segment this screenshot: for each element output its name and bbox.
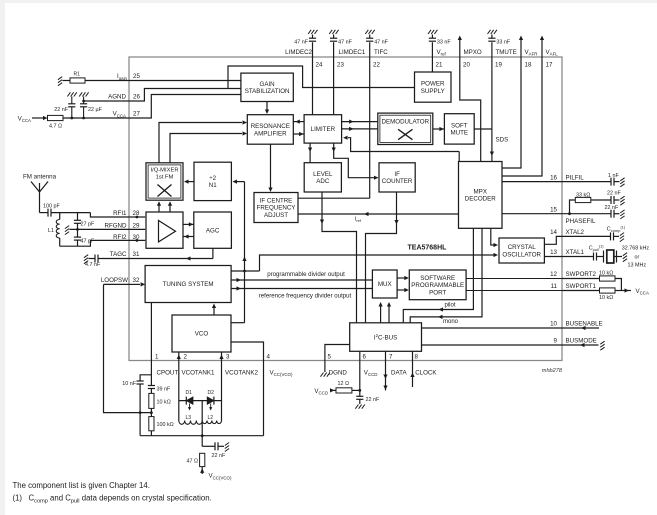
svg-text:47 nF: 47 nF	[294, 40, 308, 46]
svg-text:8: 8	[415, 353, 419, 360]
svg-text:VCOTANK2: VCOTANK2	[225, 369, 258, 376]
svg-text:TEA5768HL: TEA5768HL	[408, 245, 448, 252]
svg-text:IF CENTRE: IF CENTRE	[260, 198, 293, 205]
svg-text:17: 17	[546, 62, 553, 69]
svg-text:6: 6	[363, 353, 367, 360]
svg-text:BUSENABLE: BUSENABLE	[566, 321, 603, 328]
svg-text:mono: mono	[443, 319, 459, 325]
svg-text:VAFR: VAFR	[525, 49, 538, 57]
svg-text:21: 21	[436, 62, 443, 69]
svg-text:1st FM: 1st FM	[156, 174, 174, 180]
svg-text:29: 29	[133, 223, 140, 230]
svg-text:Igain: Igain	[117, 73, 128, 81]
svg-text:MUTE: MUTE	[451, 130, 469, 137]
svg-text:3: 3	[226, 353, 230, 360]
svg-text:2: 2	[184, 353, 188, 360]
svg-text:22 µF: 22 µF	[88, 107, 103, 113]
svg-text:18: 18	[525, 62, 532, 69]
svg-text:SWPORT2: SWPORT2	[566, 271, 597, 278]
svg-text:LOOPSW: LOOPSW	[101, 277, 128, 284]
svg-text:RFI1: RFI1	[113, 210, 127, 217]
svg-text:VCOTANK1: VCOTANK1	[182, 369, 215, 376]
svg-text:32: 32	[133, 277, 140, 284]
svg-text:1 nF: 1 nF	[608, 173, 619, 179]
svg-text:AGC: AGC	[206, 227, 220, 234]
svg-text:COUNTER: COUNTER	[382, 178, 413, 185]
svg-text:MUX: MUX	[378, 281, 392, 288]
svg-text:VCCA: VCCA	[18, 116, 31, 124]
svg-text:31: 31	[133, 251, 140, 258]
svg-text:33 nF: 33 nF	[437, 40, 451, 46]
svg-text:11: 11	[551, 283, 558, 290]
svg-text:STABILIZATION: STABILIZATION	[245, 88, 290, 95]
svg-text:N1: N1	[209, 182, 217, 189]
svg-text:VCCA: VCCA	[636, 288, 649, 296]
svg-text:10 kΩ: 10 kΩ	[599, 295, 613, 301]
svg-text:MPX: MPX	[474, 189, 487, 196]
svg-text:XTAL2: XTAL2	[566, 229, 585, 236]
svg-text:FM antenna: FM antenna	[23, 174, 57, 181]
svg-text:L2: L2	[208, 415, 214, 421]
svg-text:VAFL: VAFL	[546, 49, 559, 57]
svg-text:13: 13	[550, 249, 557, 256]
svg-text:VCC(VCO): VCC(VCO)	[270, 369, 293, 377]
svg-text:pilot: pilot	[445, 302, 456, 308]
svg-text:26: 26	[133, 94, 140, 101]
svg-text:TAGC: TAGC	[110, 251, 127, 258]
svg-text:programmable divider output: programmable divider output	[267, 271, 345, 278]
svg-text:CRYSTAL: CRYSTAL	[508, 244, 537, 251]
svg-text:22 nF: 22 nF	[212, 453, 226, 459]
svg-text:VCCD: VCCD	[364, 369, 378, 377]
svg-text:AGND: AGND	[108, 94, 126, 101]
svg-text:BUSMODE: BUSMODE	[566, 338, 597, 345]
svg-text:DECODER: DECODER	[465, 196, 496, 203]
svg-text:Vref: Vref	[437, 49, 447, 57]
svg-text:TUNING SYSTEM: TUNING SYSTEM	[163, 281, 214, 288]
svg-text:12: 12	[550, 271, 557, 278]
svg-text:30: 30	[133, 234, 140, 241]
svg-text:SOFT: SOFT	[451, 123, 468, 130]
svg-text:10: 10	[550, 321, 557, 328]
svg-text:MPXO: MPXO	[464, 49, 482, 56]
svg-text:Cpull(1): Cpull(1)	[589, 245, 605, 252]
svg-text:27: 27	[133, 111, 140, 118]
svg-text:24: 24	[316, 62, 323, 69]
svg-text:13 MHz: 13 MHz	[628, 262, 647, 268]
svg-text:15: 15	[550, 206, 557, 213]
svg-text:Iref: Iref	[355, 217, 362, 224]
svg-text:FREQUENCY: FREQUENCY	[257, 205, 296, 212]
svg-text:SUPPLY: SUPPLY	[421, 88, 445, 95]
svg-text:22 nF: 22 nF	[366, 397, 380, 403]
svg-text:Ccomp(1): Ccomp(1)	[607, 226, 626, 233]
svg-text:10 nF: 10 nF	[122, 381, 136, 387]
svg-text:47 nF: 47 nF	[338, 40, 352, 46]
svg-text:R1: R1	[74, 72, 81, 78]
svg-text:14: 14	[550, 229, 557, 236]
svg-text:47 pF: 47 pF	[81, 238, 95, 244]
svg-text:POWER: POWER	[421, 81, 445, 88]
svg-text:22 nF: 22 nF	[607, 191, 621, 197]
svg-text:1: 1	[155, 353, 159, 360]
svg-text:28: 28	[133, 210, 140, 217]
svg-text:TIFC: TIFC	[374, 49, 388, 56]
svg-text:reference frequency divider ou: reference frequency divider output	[259, 293, 352, 300]
svg-text:9: 9	[554, 338, 558, 345]
svg-text:VCCD: VCCD	[314, 388, 328, 396]
svg-text:10 kΩ: 10 kΩ	[157, 399, 171, 405]
svg-text:47 Ω: 47 Ω	[186, 458, 198, 464]
svg-text:AMPLIFIER: AMPLIFIER	[254, 130, 287, 137]
svg-text:RESONANCE: RESONANCE	[251, 123, 290, 130]
svg-text:CPOUT: CPOUT	[157, 369, 179, 376]
svg-text:I2C-BUS: I2C-BUS	[374, 333, 397, 341]
svg-text:LIMDEC1: LIMDEC1	[339, 49, 366, 56]
svg-text:32.768 kHz: 32.768 kHz	[622, 245, 650, 251]
svg-text:GAIN: GAIN	[260, 81, 275, 88]
svg-text:IF: IF	[394, 171, 400, 178]
svg-text:4.7 nF: 4.7 nF	[85, 262, 101, 268]
svg-text:16: 16	[550, 174, 557, 181]
svg-text:100 pF: 100 pF	[43, 204, 60, 210]
svg-text:D2: D2	[208, 390, 215, 396]
svg-text:(1) Ccomp and Cpull data dep: (1) Ccomp and Cpull data depends on crys…	[13, 494, 212, 505]
svg-text:PROGRAMMABLE: PROGRAMMABLE	[411, 282, 464, 289]
svg-text:DEMODULATOR: DEMODULATOR	[382, 118, 430, 125]
svg-text:XTAL1: XTAL1	[566, 249, 585, 256]
svg-text:23: 23	[337, 62, 344, 69]
svg-text:SOFTWARE: SOFTWARE	[420, 275, 455, 282]
svg-text:4: 4	[267, 353, 271, 360]
svg-text:PHASEFIL: PHASEFIL	[566, 218, 596, 225]
svg-text:SDS: SDS	[496, 137, 509, 144]
svg-text:DGND: DGND	[329, 369, 348, 376]
svg-text:7: 7	[389, 353, 393, 360]
svg-text:12 Ω: 12 Ω	[338, 381, 350, 387]
svg-text:VCC(VCO): VCC(VCO)	[209, 473, 232, 481]
svg-text:100 kΩ: 100 kΩ	[157, 422, 174, 428]
svg-text:L1: L1	[48, 228, 54, 234]
svg-text:RFI2: RFI2	[113, 234, 127, 241]
svg-text:20: 20	[463, 62, 470, 69]
svg-text:L3: L3	[186, 415, 192, 421]
svg-text:LIMDEC2: LIMDEC2	[285, 49, 312, 56]
svg-text:33 kΩ: 33 kΩ	[576, 193, 590, 199]
svg-text:19: 19	[495, 62, 502, 69]
svg-text:mhb278: mhb278	[542, 368, 563, 374]
svg-text:27 pF: 27 pF	[81, 222, 95, 228]
svg-text:D1: D1	[186, 390, 193, 396]
svg-text:5: 5	[328, 353, 332, 360]
svg-text:47 nF: 47 nF	[374, 40, 388, 46]
svg-text:or: or	[635, 254, 640, 260]
svg-text:TMUTE: TMUTE	[496, 49, 517, 56]
svg-text:I/Q-MIXER: I/Q-MIXER	[150, 167, 178, 173]
svg-text:RFGND: RFGND	[105, 223, 128, 230]
svg-text:OSCILLATOR: OSCILLATOR	[502, 251, 541, 258]
svg-text:4.7 Ω: 4.7 Ω	[49, 123, 62, 129]
svg-text:CLOCK: CLOCK	[415, 369, 437, 376]
svg-text:22 nF: 22 nF	[54, 107, 68, 113]
svg-text:ADJUST: ADJUST	[264, 212, 288, 219]
svg-text:33 nF: 33 nF	[496, 40, 510, 46]
svg-text:SWPORT1: SWPORT1	[566, 283, 597, 290]
svg-text:DATA: DATA	[391, 369, 407, 376]
svg-text:VCO: VCO	[195, 331, 209, 338]
svg-text:22: 22	[373, 62, 380, 69]
svg-text:22 nF: 22 nF	[605, 205, 619, 211]
svg-text:LIMITER: LIMITER	[311, 126, 336, 133]
svg-text:÷2: ÷2	[209, 175, 216, 182]
svg-text:PILFIL: PILFIL	[566, 174, 585, 181]
svg-text:LEVEL: LEVEL	[313, 171, 333, 178]
svg-text:ADC: ADC	[316, 178, 330, 185]
svg-text:The component list is given Ch: The component list is given Chapter 14.	[13, 481, 150, 490]
svg-text:PORT: PORT	[429, 289, 446, 296]
svg-text:39 nF: 39 nF	[157, 387, 171, 393]
svg-text:10 kΩ: 10 kΩ	[599, 270, 613, 276]
svg-text:VCCA: VCCA	[113, 111, 126, 119]
svg-text:25: 25	[133, 73, 140, 80]
